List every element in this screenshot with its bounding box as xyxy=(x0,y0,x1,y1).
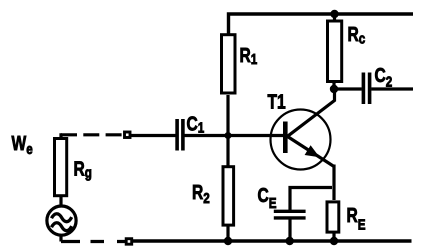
wire bottom ground rail xyxy=(133,239,412,242)
wire Rc top stub xyxy=(333,14,336,22)
wire emitter vertical xyxy=(332,165,335,201)
node base junction xyxy=(225,132,232,139)
node Rc top junction xyxy=(330,10,338,18)
wire C1 to base node xyxy=(184,134,228,137)
transistor emitter lead with arrow xyxy=(288,137,335,167)
node CE ground junction xyxy=(286,237,294,245)
wire Rg top stub xyxy=(61,135,62,140)
wire output C2 to right xyxy=(371,87,413,90)
wire source bottom xyxy=(59,235,62,242)
wire dashed source bottom xyxy=(61,240,125,243)
capacitor C2 xyxy=(363,73,369,105)
source We wave top xyxy=(52,214,72,222)
wire RE bottom stub xyxy=(332,233,335,242)
resistor Rg xyxy=(55,139,67,196)
node R2 ground junction xyxy=(224,237,232,245)
node RE ground junction xyxy=(330,237,338,245)
wire base node to R2 xyxy=(226,95,229,166)
terminal input top xyxy=(125,132,131,138)
wire top supply rail xyxy=(229,14,414,34)
wire collector lead xyxy=(288,89,335,136)
wire emitter to CE branch xyxy=(290,188,332,211)
capacitor CE xyxy=(274,211,306,218)
svg-text:T1: T1 xyxy=(268,91,286,113)
source We circle xyxy=(47,206,76,235)
source We wave bottom xyxy=(52,223,72,231)
wire dashed source top xyxy=(61,133,123,136)
wire Rc bottom stub xyxy=(332,83,335,90)
resistor R1 xyxy=(222,35,236,93)
resistor RE xyxy=(327,202,339,232)
resistor R2 xyxy=(223,167,234,225)
wire collector node to C2 xyxy=(334,87,362,90)
wire input terminal to C1 xyxy=(130,134,176,137)
transistor T1 base bar xyxy=(283,122,288,154)
wire R2 bottom stub xyxy=(226,226,229,242)
capacitor C1 xyxy=(177,119,183,151)
node collector junction xyxy=(330,85,338,93)
wire base node to transistor xyxy=(228,134,285,137)
wire CE bottom xyxy=(288,220,291,242)
transistor T1 circle xyxy=(271,110,331,170)
terminal input bottom xyxy=(126,239,132,245)
wire Rg to source xyxy=(59,197,62,208)
resistor Rc xyxy=(328,21,342,82)
